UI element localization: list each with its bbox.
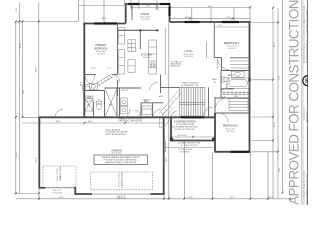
svg-text:24'-6: 24'-6 xyxy=(36,67,38,73)
window bars (black) xyxy=(94,4,250,152)
svg-text:13'-4: 13'-4 xyxy=(102,18,108,20)
svg-text:56'-8: 56'-8 xyxy=(269,197,275,199)
porch bottom xyxy=(171,140,216,142)
svg-text:10'-4: 10'-4 xyxy=(88,121,94,123)
svg-text:31'-4: 31'-4 xyxy=(20,43,22,49)
bath2 tub horizontal xyxy=(227,78,249,88)
mud bench xyxy=(142,106,152,114)
shower pan with X (strip left) xyxy=(85,98,93,111)
svg-text:LIVING: LIVING xyxy=(184,50,192,53)
svg-text:O.H. DOOR: O.H. DOOR xyxy=(52,193,63,195)
bed3 dim line xyxy=(215,26,250,28)
right info column xyxy=(302,0,303,205)
svg-text:8'-0 x 7'-0 O.H.: 8'-0 x 7'-0 O.H. xyxy=(57,167,59,181)
top horizontal ties xyxy=(16,21,79,23)
svg-text:GARAGE DOOR: GARAGE DOOR xyxy=(121,172,124,188)
svg-text:16'-0 x 7'-0 O.H.: 16'-0 x 7'-0 O.H. xyxy=(119,172,121,187)
notes in garage xyxy=(106,117,144,136)
svg-text:23'-8: 23'-8 xyxy=(36,157,38,163)
svg-text:BEDROOM: BEDROOM xyxy=(95,48,108,51)
bed3 / living wall xyxy=(213,22,215,58)
svg-text:GARAGE DOOR: GARAGE DOOR xyxy=(59,166,62,182)
bath2 vanity + sink xyxy=(232,71,245,77)
dim tick marks xyxy=(15,6,291,199)
svg-text:16'-0 x 8'-0: 16'-0 x 8'-0 xyxy=(177,135,186,137)
garage inner dim line xyxy=(23,122,164,124)
svg-text:BEDROOM 3: BEDROOM 3 xyxy=(224,42,240,45)
primary closet diagonal rods xyxy=(96,74,112,84)
porch top wall xyxy=(85,116,215,118)
svg-text:5x8: 5x8 xyxy=(109,104,112,106)
dining/living stub xyxy=(155,5,157,11)
bedroom door arc xyxy=(85,75,95,85)
svg-text:11'-6: 11'-6 xyxy=(274,122,276,127)
svg-text:9'-0 CLG: 9'-0 CLG xyxy=(143,57,151,59)
stoop diagonal railing band xyxy=(159,90,182,118)
svg-text:S: S xyxy=(305,79,308,85)
svg-text:HALL: HALL xyxy=(212,78,217,81)
wic rods xyxy=(222,91,250,93)
svg-text:DROP AS REQUIRED: DROP AS REQUIRED xyxy=(106,133,127,136)
svg-text:3-0: 3-0 xyxy=(213,82,216,84)
svg-text:28'-4: 28'-4 xyxy=(208,6,214,8)
svg-text:4" CONC. STOOP: 4" CONC. STOOP xyxy=(181,145,197,147)
kitchen left counter xyxy=(119,28,125,45)
svg-text:14'-6: 14'-6 xyxy=(81,81,83,87)
garage dashed door rects xyxy=(43,166,153,190)
svg-text:11'-4: 11'-4 xyxy=(230,197,235,199)
front door arc in foyer xyxy=(203,107,213,117)
svg-text:10'-0 CLG: 10'-0 CLG xyxy=(184,56,193,58)
svg-text:21'-4: 21'-4 xyxy=(59,197,65,199)
svg-text:PROVIDE SOLID BLOCKING AT ALL: PROVIDE SOLID BLOCKING AT ALL xyxy=(104,158,139,161)
wc toilet in strip xyxy=(97,103,102,109)
svg-text:BEARING POINTS - SEE NOTES: BEARING POINTS - SEE NOTES xyxy=(105,161,137,164)
kitchen right cabinets xyxy=(149,40,157,74)
svg-text:16'-0: 16'-0 xyxy=(118,197,124,199)
svg-text:9'-0 CLG: 9'-0 CLG xyxy=(97,54,105,56)
tall X closet xyxy=(105,89,117,117)
svg-text:BATH 2: BATH 2 xyxy=(228,74,234,77)
left vertical dim lines xyxy=(15,22,17,194)
svg-text:5'-8: 5'-8 xyxy=(222,96,225,98)
bedroom2 bottom xyxy=(215,151,251,153)
main top wall xyxy=(170,21,250,23)
bed3 closet rod xyxy=(230,60,249,62)
garage door sill thin lines xyxy=(46,188,151,194)
svg-text:SLOPE 1/4" PER FOOT: SLOPE 1/4" PER FOOT xyxy=(175,129,196,131)
svg-text:5'-0 x 9'-6: 5'-0 x 9'-6 xyxy=(85,100,93,102)
svg-text:12'-8: 12'-8 xyxy=(188,197,194,199)
stamp circle xyxy=(303,76,313,86)
svg-text:UTILITY: UTILITY xyxy=(121,90,129,92)
svg-text:21'-4 x 23'-8: 21'-4 x 23'-8 xyxy=(111,153,121,155)
svg-text:9'-0 CLG: 9'-0 CLG xyxy=(228,48,236,50)
svg-text:14 RISERS AT 7 3/4": 14 RISERS AT 7 3/4" xyxy=(181,84,199,87)
svg-text:3x5: 3x5 xyxy=(87,104,90,106)
primary bath: toilet xyxy=(85,86,91,90)
svg-text:12'-0: 12'-0 xyxy=(91,67,97,69)
svg-text:GARAGE HEADER PER MANUF. SPECS: GARAGE HEADER PER MANUF. SPECS xyxy=(102,156,141,159)
garage entry door swing into garage xyxy=(160,118,170,128)
hall closet shelves xyxy=(229,99,248,111)
left wall xyxy=(83,23,85,117)
svg-text:APPROVED FOR CONSTRUCTION: APPROVED FOR CONSTRUCTION xyxy=(287,0,302,205)
svg-text:62'-0: 62'-0 xyxy=(16,152,18,158)
bath2 toilet xyxy=(223,77,228,81)
island A xyxy=(128,40,135,52)
svg-text:SHEET A-5: SHEET A-5 xyxy=(171,65,181,68)
dining bump xyxy=(125,4,127,24)
svg-text:9'-0 CLG: 9'-0 CLG xyxy=(141,19,149,21)
porch posts xyxy=(139,29,141,31)
garage note box xyxy=(94,155,148,165)
bath2 walls xyxy=(220,71,222,99)
svg-text:AT PORCH: AT PORCH xyxy=(180,151,190,154)
dimension texts xyxy=(59,6,275,199)
vanity xyxy=(90,83,98,89)
small scattered notes xyxy=(52,135,201,200)
svg-text:MUD: MUD xyxy=(159,96,164,98)
stairs xyxy=(180,87,205,116)
garage front wall: left bay xyxy=(39,187,46,189)
island B xyxy=(128,60,135,73)
bottom xyxy=(16,193,39,195)
svg-text:COVERED PORCH: COVERED PORCH xyxy=(174,120,196,123)
svg-text:9'-0 CLG: 9'-0 CLG xyxy=(227,131,235,133)
bedroom2 / porch left wall xyxy=(214,113,216,152)
primary bath / strip partitions xyxy=(85,90,105,92)
garage xyxy=(38,117,40,188)
svg-text:24'-2: 24'-2 xyxy=(56,121,62,123)
svg-text:16'-8: 16'-8 xyxy=(185,17,191,19)
svg-text:13'-2: 13'-2 xyxy=(274,42,276,48)
washer dryer stacked xyxy=(120,98,127,106)
svg-text:PER PLAN - SEE NOTES: PER PLAN - SEE NOTES xyxy=(119,120,143,123)
svg-text:DINING: DINING xyxy=(141,13,150,16)
svg-text:STAIR TO BONUS: STAIR TO BONUS xyxy=(182,81,198,84)
svg-text:MUD: MUD xyxy=(144,101,149,103)
right wall xyxy=(249,21,251,152)
svg-text:BEDROOM 2: BEDROOM 2 xyxy=(223,125,239,128)
primary bedroom top wall xyxy=(84,23,126,25)
right vertical dim lines xyxy=(272,8,274,198)
svg-text:WIC: WIC xyxy=(234,96,238,98)
stairs enclosure xyxy=(208,87,210,117)
door arcs xyxy=(112,75,120,83)
